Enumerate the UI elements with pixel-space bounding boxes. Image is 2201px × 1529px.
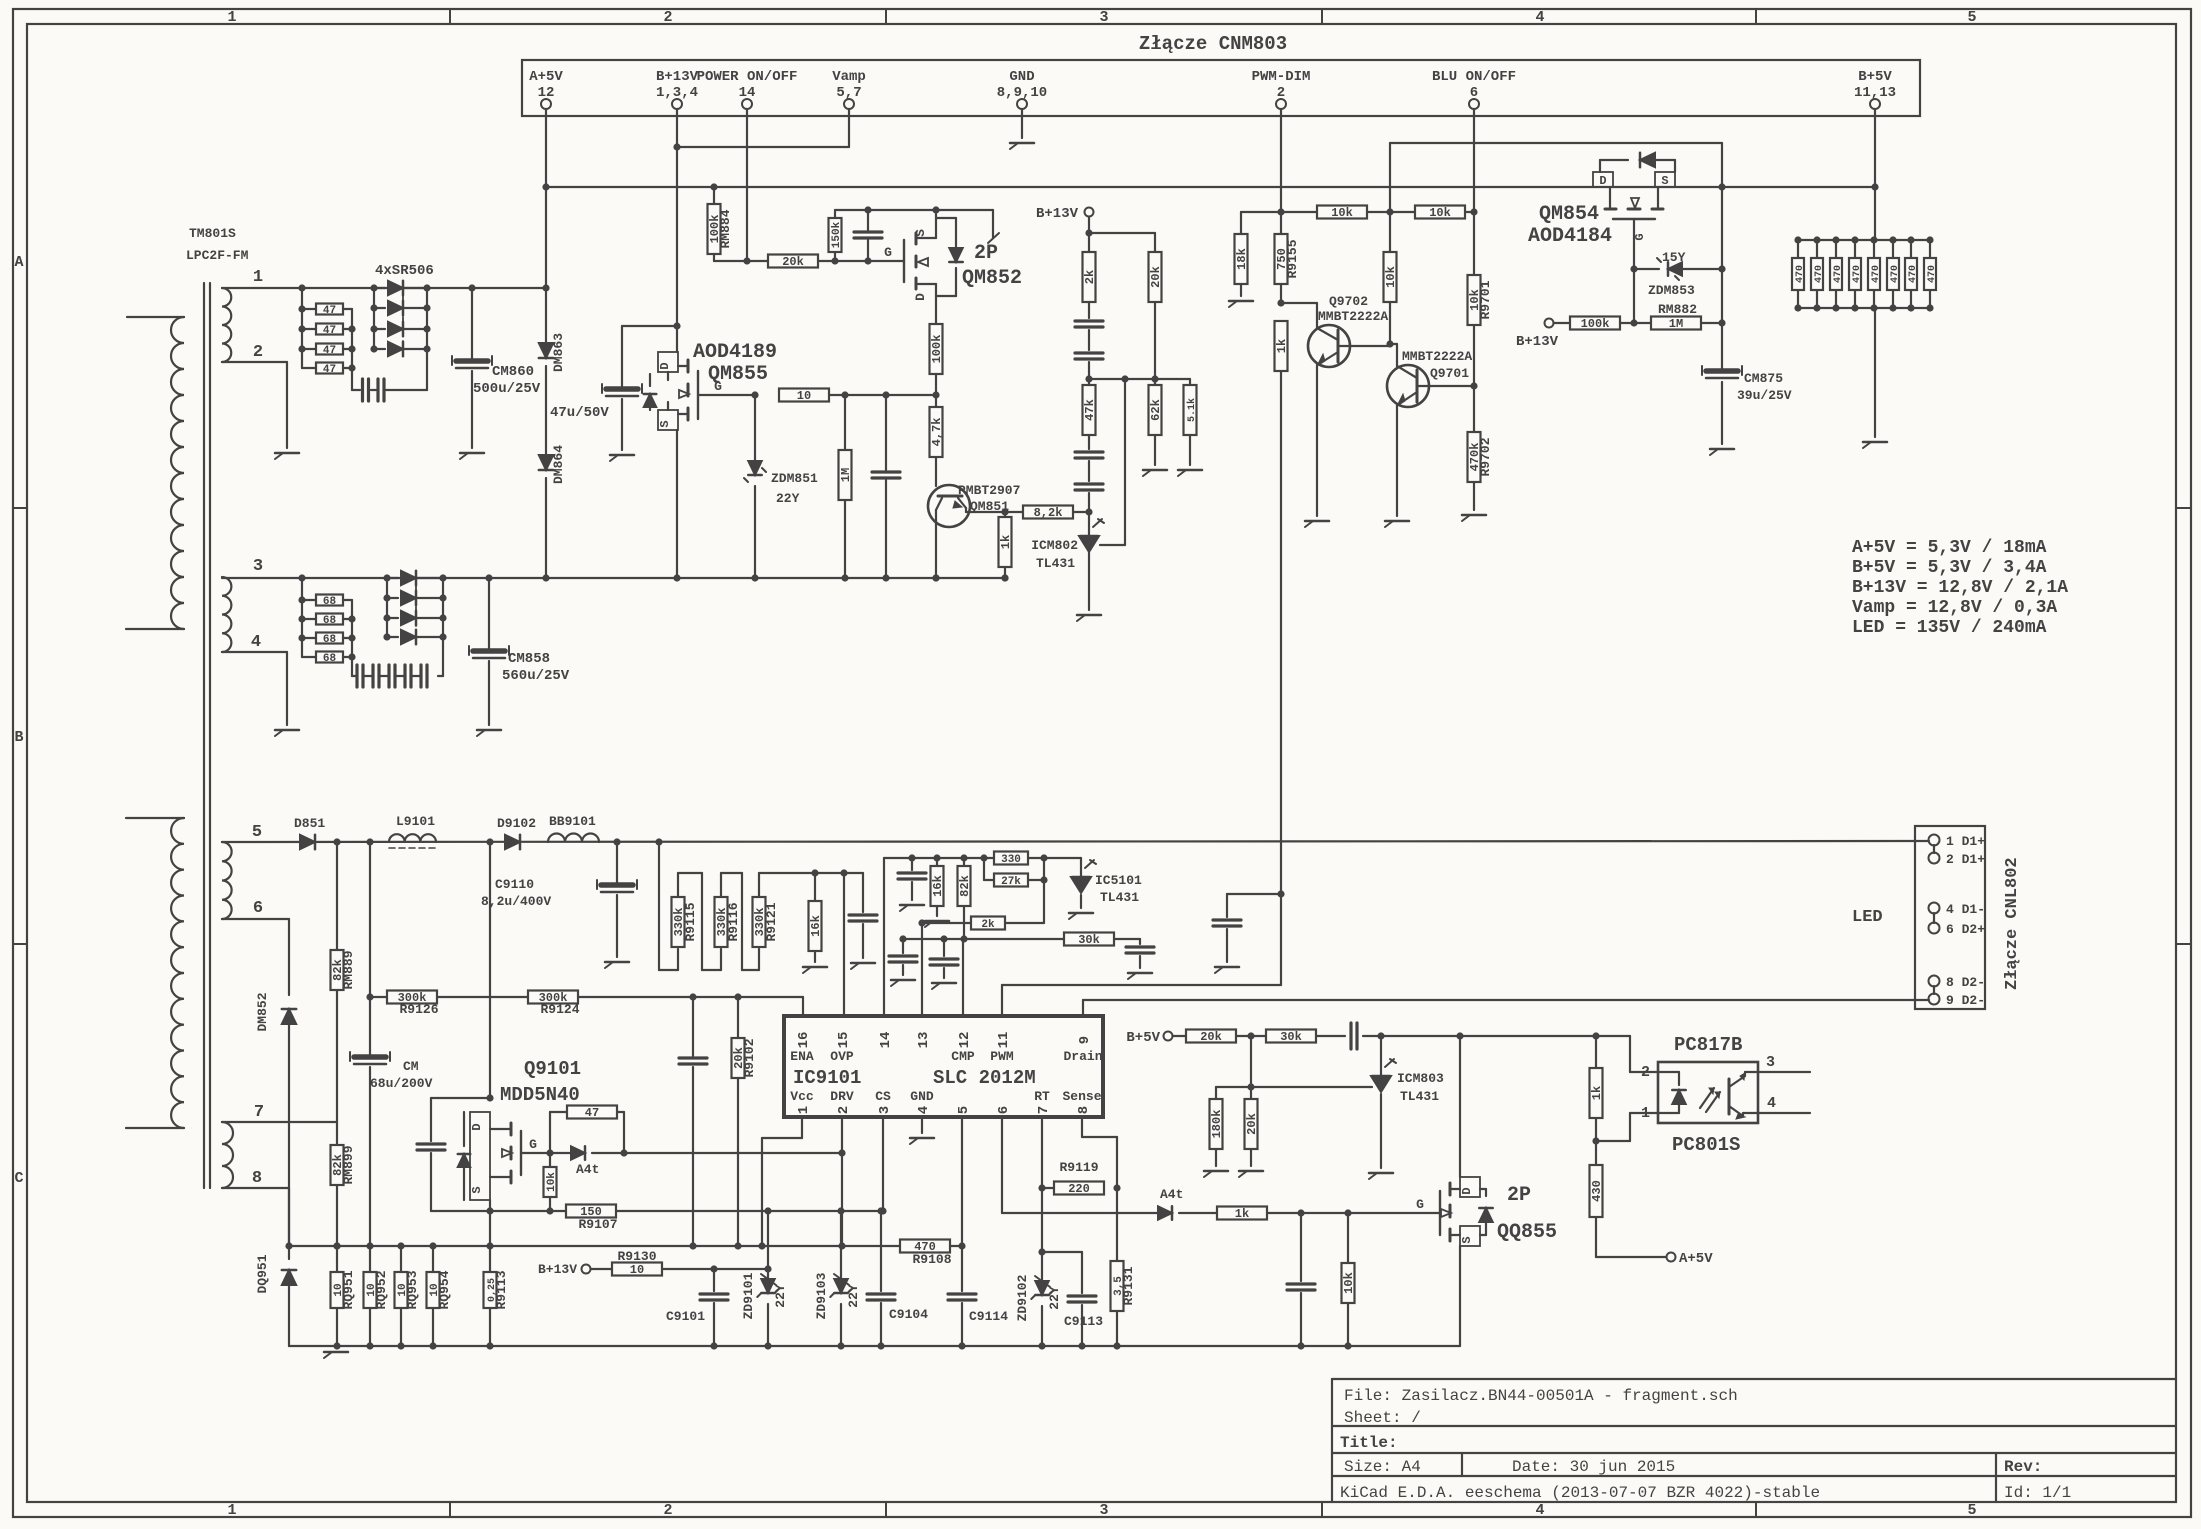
svg-text:A+5V: A+5V (529, 69, 563, 85)
svg-text:13: 13 (916, 1032, 932, 1049)
svg-text:Vamp = 12,8V / 0,3A: Vamp = 12,8V / 0,3A (1852, 598, 2057, 618)
svg-text:A+5V = 5,3V / 18mA: A+5V = 5,3V / 18mA (1852, 538, 2047, 558)
svg-text:10k: 10k (1342, 1272, 1356, 1294)
svg-text:QQ855: QQ855 (1497, 1221, 1557, 1244)
svg-text:Vamp: Vamp (832, 69, 866, 85)
svg-text:68: 68 (323, 615, 337, 627)
svg-text:R9113: R9113 (494, 1270, 509, 1309)
svg-text:4: 4 (1535, 1502, 1544, 1519)
svg-text:Title:: Title: (1340, 1434, 1398, 1452)
svg-text:430: 430 (1590, 1180, 1604, 1202)
svg-text:4,7k: 4,7k (930, 418, 944, 447)
svg-text:15Y: 15Y (1662, 250, 1686, 265)
svg-text:62k: 62k (1149, 399, 1163, 421)
svg-text:Date: 30 jun 2015: Date: 30 jun 2015 (1512, 1458, 1675, 1476)
svg-text:RM882: RM882 (1658, 302, 1697, 317)
svg-text:R9130: R9130 (617, 1249, 656, 1264)
svg-text:QM854: QM854 (1539, 203, 1599, 226)
svg-text:470: 470 (1833, 265, 1844, 283)
svg-text:68: 68 (323, 596, 337, 608)
svg-text:D: D (1599, 174, 1606, 188)
svg-text:ZD9101: ZD9101 (741, 1272, 756, 1319)
svg-text:12: 12 (957, 1032, 973, 1049)
svg-text:Złącze CNL802: Złącze CNL802 (2003, 857, 2022, 990)
svg-text:A: A (14, 254, 23, 271)
svg-text:2: 2 (663, 1502, 672, 1519)
svg-text:30k: 30k (1078, 933, 1100, 947)
svg-text:R9102: R9102 (742, 1038, 757, 1077)
svg-text:Rev:: Rev: (2004, 1458, 2042, 1476)
svg-text:MMBT2222A: MMBT2222A (1402, 349, 1472, 364)
svg-text:5: 5 (252, 823, 262, 842)
svg-text:CM875: CM875 (1744, 371, 1783, 386)
svg-text:22Y: 22Y (846, 1284, 861, 1308)
svg-text:330: 330 (1001, 854, 1021, 866)
svg-text:RM884: RM884 (718, 209, 733, 248)
svg-text:A+5V: A+5V (1679, 1251, 1713, 1267)
svg-text:CMP: CMP (951, 1049, 975, 1064)
svg-text:CM: CM (403, 1059, 419, 1074)
svg-text:5: 5 (1967, 1502, 1976, 1519)
svg-text:LPC2F-FM: LPC2F-FM (186, 248, 249, 263)
svg-text:20k: 20k (1149, 266, 1163, 288)
svg-text:3: 3 (1766, 1054, 1775, 1071)
svg-text:D: D (470, 1123, 484, 1130)
svg-text:1: 1 (253, 268, 263, 287)
svg-text:Sense: Sense (1062, 1089, 1101, 1104)
svg-text:16k: 16k (809, 915, 823, 937)
svg-text:2: 2 (836, 1106, 852, 1114)
svg-text:1k: 1k (1235, 1207, 1249, 1221)
svg-text:CM860: CM860 (492, 364, 534, 380)
svg-text:47: 47 (585, 1106, 599, 1120)
svg-text:KiCad E.D.A. eeschema (2013-0: KiCad E.D.A. eeschema (2013-07-07 BZR 40… (1340, 1484, 1820, 1502)
svg-text:PC801S: PC801S (1672, 1134, 1740, 1156)
svg-text:TL431: TL431 (1100, 890, 1139, 905)
svg-text:27k: 27k (1001, 876, 1021, 888)
svg-text:10k: 10k (1384, 266, 1398, 288)
svg-text:R9115: R9115 (683, 902, 698, 941)
svg-text:470: 470 (1852, 265, 1863, 283)
svg-text:G: G (529, 1137, 537, 1152)
svg-text:ICM803: ICM803 (1397, 1071, 1444, 1086)
svg-text:DM864: DM864 (551, 445, 566, 484)
svg-text:R9124: R9124 (540, 1002, 579, 1017)
svg-text:L9101: L9101 (396, 814, 435, 829)
svg-text:16k: 16k (931, 875, 945, 897)
svg-text:C9101: C9101 (666, 1309, 705, 1324)
svg-text:RT: RT (1034, 1089, 1050, 1104)
svg-text:3: 3 (253, 557, 263, 576)
svg-text:16: 16 (796, 1032, 812, 1049)
svg-text:6 D2+: 6 D2+ (1946, 922, 1985, 937)
svg-text:3: 3 (877, 1106, 893, 1114)
svg-text:20k: 20k (1245, 1113, 1259, 1135)
svg-text:4: 4 (251, 633, 261, 652)
svg-text:File: Zasilacz.BN44-00501A - f: File: Zasilacz.BN44-00501A - fragment.sc… (1344, 1387, 1738, 1405)
svg-text:TM801S: TM801S (189, 226, 236, 241)
svg-text:B+5V = 5,3V / 3,4A: B+5V = 5,3V / 3,4A (1852, 558, 2047, 578)
svg-text:8: 8 (1076, 1106, 1092, 1114)
svg-text:CS: CS (875, 1089, 891, 1104)
svg-text:8: 8 (252, 1169, 262, 1188)
svg-text:5: 5 (956, 1106, 972, 1114)
svg-text:470: 470 (1814, 265, 1825, 283)
svg-text:QM855: QM855 (708, 363, 768, 386)
svg-text:B+5V: B+5V (1126, 1030, 1160, 1046)
svg-text:R9155: R9155 (1285, 239, 1300, 278)
svg-text:S: S (1661, 174, 1668, 188)
svg-text:PMBT2907: PMBT2907 (958, 483, 1020, 498)
svg-text:Drain: Drain (1063, 1049, 1102, 1064)
svg-text:68u/200V: 68u/200V (370, 1076, 433, 1091)
svg-text:IC5101: IC5101 (1095, 873, 1142, 888)
svg-text:20k: 20k (1200, 1030, 1222, 1044)
svg-text:14: 14 (878, 1032, 894, 1049)
svg-text:1k: 1k (999, 535, 1013, 549)
svg-text:ENA: ENA (790, 1049, 814, 1064)
svg-text:D: D (658, 362, 672, 369)
svg-text:RM889: RM889 (341, 950, 356, 989)
svg-text:ZDM851: ZDM851 (771, 471, 818, 486)
svg-text:LED: LED (1852, 908, 1883, 927)
svg-text:BB9101: BB9101 (549, 814, 596, 829)
svg-text:R9701: R9701 (1478, 280, 1493, 319)
svg-text:Sheet: /: Sheet: / (1344, 1409, 1421, 1427)
svg-text:1M: 1M (1669, 317, 1683, 331)
svg-text:QM852: QM852 (962, 267, 1022, 290)
svg-text:ZD9103: ZD9103 (814, 1272, 829, 1319)
svg-text:A4t: A4t (576, 1162, 599, 1177)
svg-text:G: G (1633, 233, 1647, 240)
svg-text:R9108: R9108 (912, 1252, 951, 1267)
svg-text:47: 47 (323, 325, 336, 337)
svg-text:S: S (913, 229, 928, 237)
svg-text:82k: 82k (958, 875, 972, 897)
svg-text:B+13V = 12,8V / 2,1A: B+13V = 12,8V / 2,1A (1852, 578, 2068, 598)
svg-text:47u/50V: 47u/50V (550, 405, 609, 421)
svg-text:1: 1 (227, 9, 236, 26)
svg-text:1M: 1M (839, 468, 853, 482)
svg-text:4: 4 (1767, 1095, 1776, 1112)
svg-text:4 D1-: 4 D1- (1946, 902, 1985, 917)
svg-text:C9110: C9110 (495, 877, 534, 892)
svg-text:CM858: CM858 (508, 651, 550, 667)
svg-text:1: 1 (227, 1502, 236, 1519)
svg-text:SLC 2012M: SLC 2012M (933, 1067, 1036, 1089)
svg-text:RQ951: RQ951 (341, 1270, 356, 1309)
svg-text:Vcc: Vcc (790, 1089, 814, 1104)
svg-text:OVP: OVP (830, 1049, 854, 1064)
svg-text:R9116: R9116 (726, 902, 741, 941)
svg-text:B+13V: B+13V (1516, 334, 1559, 350)
svg-text:2k: 2k (981, 919, 995, 931)
svg-text:QM851: QM851 (970, 499, 1009, 514)
svg-text:22Y: 22Y (1047, 1286, 1062, 1310)
svg-text:1: 1 (796, 1106, 812, 1114)
svg-text:D: D (1460, 1187, 1474, 1194)
svg-text:100k: 100k (1581, 317, 1610, 331)
svg-text:B+5V: B+5V (1858, 69, 1892, 85)
svg-text:10: 10 (797, 389, 811, 403)
svg-text:ICM802: ICM802 (1031, 538, 1078, 553)
svg-text:GND: GND (1009, 69, 1034, 85)
svg-text:2k: 2k (1083, 270, 1097, 284)
svg-text:2P: 2P (1507, 1184, 1531, 1207)
svg-text:2 D1+: 2 D1+ (1946, 852, 1985, 867)
svg-text:D9102: D9102 (497, 816, 536, 831)
svg-text:5: 5 (1967, 9, 1976, 26)
svg-text:9 D2-: 9 D2- (1946, 993, 1985, 1008)
svg-text:R9121: R9121 (764, 902, 779, 941)
svg-text:GND: GND (910, 1089, 934, 1104)
svg-text:AOD4184: AOD4184 (1528, 225, 1612, 248)
svg-text:S: S (1460, 1236, 1474, 1243)
svg-text:B+13V: B+13V (656, 69, 699, 85)
svg-text:47k: 47k (1083, 399, 1097, 421)
svg-text:TL431: TL431 (1400, 1089, 1439, 1104)
svg-text:Q9702: Q9702 (1329, 294, 1368, 309)
svg-text:S: S (470, 1186, 484, 1193)
svg-text:R9107: R9107 (578, 1217, 617, 1232)
svg-text:PC817B: PC817B (1674, 1034, 1742, 1056)
svg-text:G: G (1416, 1197, 1424, 1212)
svg-text:2P: 2P (974, 242, 998, 265)
svg-text:500u/25V: 500u/25V (473, 381, 541, 397)
svg-text:C9114: C9114 (969, 1309, 1008, 1324)
svg-text:RQ953: RQ953 (405, 1270, 420, 1309)
svg-text:470: 470 (1908, 265, 1919, 283)
svg-text:11: 11 (996, 1032, 1012, 1049)
svg-text:470: 470 (1927, 265, 1938, 283)
svg-text:G: G (884, 245, 892, 260)
svg-text:DM852: DM852 (255, 992, 270, 1031)
svg-text:22Y: 22Y (773, 1284, 788, 1308)
svg-text:4xSR506: 4xSR506 (375, 263, 434, 279)
svg-text:ZD9102: ZD9102 (1015, 1274, 1030, 1321)
svg-text:Id: 1/1: Id: 1/1 (2004, 1484, 2071, 1502)
svg-text:PWM: PWM (990, 1049, 1014, 1064)
svg-text:R9119: R9119 (1059, 1160, 1098, 1175)
svg-text:7: 7 (254, 1103, 264, 1122)
svg-text:18k: 18k (1235, 248, 1249, 270)
svg-text:47: 47 (323, 345, 336, 357)
svg-text:A4t: A4t (1160, 1187, 1183, 1202)
svg-text:DM863: DM863 (551, 333, 566, 372)
svg-text:MMBT2222A: MMBT2222A (1318, 309, 1388, 324)
svg-text:2: 2 (663, 9, 672, 26)
svg-text:3: 3 (1099, 9, 1108, 26)
svg-text:6: 6 (253, 899, 263, 918)
svg-text:1 D1+: 1 D1+ (1946, 834, 1985, 849)
svg-text:4: 4 (1535, 9, 1544, 26)
svg-text:2: 2 (1641, 1064, 1650, 1081)
svg-text:B: B (14, 729, 23, 746)
svg-text:Size: A4: Size: A4 (1344, 1458, 1421, 1476)
svg-text:R9702: R9702 (1478, 437, 1493, 476)
svg-text:2: 2 (253, 343, 263, 362)
svg-text:8,2k: 8,2k (1034, 506, 1063, 520)
svg-text:180k: 180k (1210, 1110, 1224, 1139)
svg-text:470: 470 (1871, 265, 1882, 283)
svg-text:Złącze CNM803: Złącze CNM803 (1139, 33, 1287, 55)
svg-text:560u/25V: 560u/25V (502, 668, 570, 684)
svg-text:C9113: C9113 (1064, 1314, 1103, 1329)
svg-text:BLU ON/OFF: BLU ON/OFF (1432, 69, 1516, 85)
svg-text:LED = 135V / 240mA: LED = 135V / 240mA (1852, 618, 2047, 638)
svg-text:MDD5N40: MDD5N40 (500, 1084, 580, 1106)
svg-text:30k: 30k (1280, 1030, 1302, 1044)
svg-text:20k: 20k (782, 255, 804, 269)
svg-text:10: 10 (630, 1263, 644, 1277)
svg-text:ZDM853: ZDM853 (1648, 283, 1695, 298)
svg-text:10k: 10k (546, 1172, 558, 1192)
svg-text:Q9101: Q9101 (524, 1058, 581, 1080)
svg-text:TL431: TL431 (1036, 556, 1075, 571)
svg-text:47: 47 (323, 305, 336, 317)
svg-text:3: 3 (1099, 1502, 1108, 1519)
svg-text:R9131: R9131 (1121, 1266, 1136, 1305)
svg-text:10k: 10k (1429, 206, 1451, 220)
svg-text:POWER ON/OFF: POWER ON/OFF (697, 69, 798, 85)
svg-text:7: 7 (1036, 1106, 1052, 1114)
svg-text:15: 15 (836, 1032, 852, 1049)
svg-text:B+13V: B+13V (1036, 206, 1079, 222)
svg-text:C: C (14, 1170, 23, 1187)
svg-text:PWM-DIM: PWM-DIM (1252, 69, 1311, 85)
svg-text:IC9101: IC9101 (793, 1067, 861, 1089)
svg-text:150k: 150k (831, 221, 843, 248)
svg-text:RQ954: RQ954 (437, 1270, 452, 1309)
svg-text:8 D2-: 8 D2- (1946, 975, 1985, 990)
svg-text:9: 9 (1077, 1036, 1093, 1044)
svg-text:220: 220 (1068, 1182, 1090, 1196)
svg-text:DRV: DRV (830, 1089, 854, 1104)
svg-text:R9126: R9126 (399, 1002, 438, 1017)
svg-text:5.1k: 5.1k (1186, 398, 1198, 422)
svg-text:1k: 1k (1275, 339, 1289, 353)
svg-text:100k: 100k (930, 335, 944, 364)
svg-text:47: 47 (323, 364, 336, 376)
svg-text:Q9701: Q9701 (1430, 366, 1469, 381)
svg-text:RQ952: RQ952 (374, 1270, 389, 1309)
svg-text:470: 470 (1795, 265, 1806, 283)
svg-text:1k: 1k (1590, 1086, 1604, 1100)
svg-text:DQ951: DQ951 (255, 1254, 270, 1293)
svg-text:68: 68 (323, 653, 337, 665)
svg-text:22Y: 22Y (776, 491, 800, 506)
svg-text:B+13V: B+13V (538, 1262, 577, 1277)
svg-text:RM899: RM899 (341, 1145, 356, 1184)
svg-text:6: 6 (996, 1106, 1012, 1114)
svg-text:68: 68 (323, 634, 337, 646)
svg-text:470: 470 (1890, 265, 1901, 283)
svg-text:4: 4 (916, 1106, 932, 1114)
svg-text:AOD4189: AOD4189 (693, 341, 777, 364)
svg-text:D851: D851 (294, 816, 325, 831)
svg-text:D: D (913, 293, 928, 301)
svg-text:10k: 10k (1331, 206, 1353, 220)
svg-text:1: 1 (1641, 1105, 1650, 1122)
svg-text:8,2u/400V: 8,2u/400V (481, 894, 551, 909)
svg-text:39u/25V: 39u/25V (1737, 388, 1792, 403)
svg-text:S: S (658, 420, 672, 427)
svg-text:C9104: C9104 (889, 1307, 928, 1322)
